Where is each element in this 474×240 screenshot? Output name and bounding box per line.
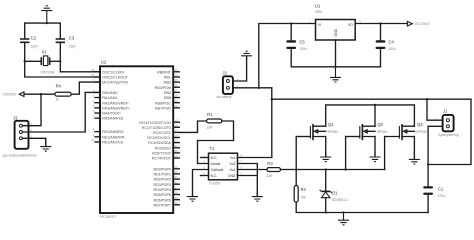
svg-text:J3: J3 <box>13 116 18 121</box>
svg-text:U2: U2 <box>101 59 107 64</box>
U2 pin RE1/AN6/WR (left, pin 9) <box>93 133 125 139</box>
wire Q3 gate lead <box>385 136 400 138</box>
U2 pin RB0/INT (right, pin 33) <box>157 68 179 74</box>
svg-text:Q2: Q2 <box>377 122 383 127</box>
U2 pin RD7/PSP7 (right, pin 30) <box>153 201 179 207</box>
U2 pin RC3/SCK/SCL (right, pin 18) <box>147 134 179 140</box>
svg-text:OSC2/CLKOUT: OSC2/CLKOUT <box>102 76 128 80</box>
svg-text:19: 19 <box>175 165 178 169</box>
ground (Q3 source) <box>409 152 420 164</box>
ground (oscillator top rail) <box>41 6 52 23</box>
resistor R4 <box>55 84 71 102</box>
capacitor C4 100u <box>376 40 386 49</box>
svg-text:X1: X1 <box>42 49 48 54</box>
svg-text:R1: R1 <box>207 112 213 117</box>
svg-text:35: 35 <box>175 78 178 82</box>
U2 pin RA5/AN4/SS (left, pin 7) <box>93 114 124 120</box>
svg-text:470u: 470u <box>438 194 445 198</box>
svg-text:RE0/AN5/RD: RE0/AN5/RD <box>102 130 124 134</box>
power terminal VCC/5V0 (left) <box>3 92 24 97</box>
U2 pin RC0/T1OSO/T1CKI (right, pin 15) <box>139 118 179 124</box>
wire T1 Vcc to +12V <box>238 157 272 159</box>
resistor R1 <box>207 112 222 129</box>
T1 pin stub NC bottom-left <box>201 175 209 177</box>
svg-text:C4: C4 <box>389 40 395 45</box>
wire Q3 gate riser <box>384 137 386 170</box>
node C4 on output rail <box>379 22 381 24</box>
voltage regulator U1 7805 <box>309 3 361 46</box>
svg-text:RC2/CCP1: RC2/CCP1 <box>153 131 171 135</box>
wire R1 to T1 anode <box>198 121 234 164</box>
svg-text:14: 14 <box>91 73 94 77</box>
node J1 pin1 rail junction <box>426 98 428 100</box>
svg-text:29: 29 <box>175 196 178 200</box>
svg-text:RA5/AN4/SS: RA5/AN4/SS <box>102 117 123 121</box>
node bottom rail ground junction <box>342 211 344 213</box>
svg-text:R2: R2 <box>301 187 307 192</box>
wire C5 top lead <box>290 24 292 41</box>
svg-text:Q1: Q1 <box>328 122 334 127</box>
svg-text:21: 21 <box>175 175 178 179</box>
svg-text:10: 10 <box>91 138 94 142</box>
svg-text:C2: C2 <box>31 36 37 41</box>
wire MOSFET drain rail <box>326 105 415 126</box>
svg-text:RB1: RB1 <box>164 76 171 80</box>
svg-text:RB0/INT: RB0/INT <box>157 70 172 74</box>
U2 pin RB7/PGD (right, pin 40) <box>155 104 179 110</box>
svg-text:Anode: Anode <box>211 162 221 166</box>
svg-text:GND: GND <box>334 28 338 36</box>
ground (T1 cathode) <box>187 190 198 201</box>
wire +12V top rail to J1 <box>272 99 471 164</box>
svg-text:15: 15 <box>175 118 178 122</box>
capacitor C1 470u <box>423 186 433 195</box>
ground (J3 pin3) <box>40 138 51 151</box>
svg-text:RC4/SDI/SDA: RC4/SDI/SDA <box>148 141 171 145</box>
svg-text:RB2: RB2 <box>164 81 171 85</box>
wire +12V vertical to T1 Vcc <box>271 88 273 158</box>
svg-text:26: 26 <box>175 154 178 158</box>
svg-text:30: 30 <box>175 201 178 205</box>
svg-text:23: 23 <box>175 139 178 143</box>
svg-text:RB7/PGD: RB7/PGD <box>155 106 171 110</box>
connector J2 car battery <box>216 71 238 100</box>
svg-text:BZV85C12: BZV85C12 <box>332 198 348 202</box>
node R4 left junction <box>40 93 42 95</box>
node Q2 drain junction <box>374 104 376 106</box>
svg-text:RD1/PSP1: RD1/PSP1 <box>153 172 170 176</box>
svg-text:RB4: RB4 <box>164 91 171 95</box>
node +12V branch to regulator <box>258 87 260 89</box>
wire C1 bottom to bottom rail <box>427 195 429 213</box>
svg-text:27: 27 <box>175 186 178 190</box>
U2 pin RD1/PSP1 (right, pin 20) <box>153 170 179 176</box>
node U1 ground lead junction <box>334 66 336 68</box>
wire Q1 source to ground <box>325 137 327 157</box>
svg-text:24: 24 <box>175 144 178 148</box>
svg-text:38: 38 <box>175 94 178 98</box>
svg-text:RD0/PSP0: RD0/PSP0 <box>153 167 170 171</box>
U2 pin RD4/PSP4 (right, pin 27) <box>153 186 179 192</box>
svg-text:17: 17 <box>175 129 178 133</box>
svg-text:J1: J1 <box>443 108 448 113</box>
svg-text:28: 28 <box>175 191 178 195</box>
svg-text:Q3: Q3 <box>417 122 423 127</box>
svg-text:RD4/PSP4: RD4/PSP4 <box>153 188 170 192</box>
U2 pin RC6/TX/CK (right, pin 25) <box>152 149 179 155</box>
svg-text:VO: VO <box>348 23 353 27</box>
wire J3 pin3 to ground <box>22 138 45 146</box>
transistor Q2 IRF540 <box>360 122 388 140</box>
svg-text:J2: J2 <box>222 71 227 76</box>
U2 pin RA3/AN3/VREF+ (left, pin 5) <box>93 104 130 110</box>
svg-text:34: 34 <box>175 73 178 77</box>
svg-text:10k: 10k <box>301 195 307 199</box>
wire +12V riser to 7805 input rail <box>259 24 316 88</box>
node D1 bottom junction <box>325 211 327 213</box>
ground (Q2 source) <box>370 150 381 162</box>
svg-text:40: 40 <box>175 104 178 108</box>
wire D1 bottom to bottom rail <box>325 198 327 213</box>
svg-text:C5: C5 <box>299 40 305 45</box>
svg-text:U1: U1 <box>315 3 321 8</box>
svg-text:RD7/PSP7: RD7/PSP7 <box>153 203 170 207</box>
node J1 return junction <box>427 163 429 165</box>
svg-text:22: 22 <box>175 180 178 184</box>
svg-text:RA1/AN1: RA1/AN1 <box>102 96 117 100</box>
U2 pin RD2/PSP2 (right, pin 21) <box>153 175 179 181</box>
U2 pin RB5 (right, pin 38) <box>164 94 179 100</box>
U2 pin RC7/RX/DT (right, pin 26) <box>152 154 179 160</box>
wire C5 bottom to ground line <box>291 49 380 67</box>
wire C3 bottom to OSC1/CLKIN <box>60 43 100 72</box>
U2 pin RC5/SDO (right, pin 24) <box>155 144 179 150</box>
connector J3 <box>3 116 38 158</box>
crystal X1 <box>41 49 56 74</box>
U2 pin RA4/T0CKI (left, pin 6) <box>93 109 121 115</box>
U2 pin MCLR/Vpp/THV (left, pin 1) <box>93 78 129 84</box>
wire C4 top lead <box>380 24 382 41</box>
wire J1 pin2 lead <box>428 125 443 127</box>
wire C4 bottom to ground line <box>380 49 382 67</box>
svg-text:RA0/AN0: RA0/AN0 <box>102 91 117 95</box>
U2 pin RD6/PSP6 (right, pin 29) <box>153 196 179 202</box>
ground (Q1 source) <box>320 150 331 162</box>
transistor Q1 IRF540 <box>310 122 338 140</box>
svg-text:RB3/PGM: RB3/PGM <box>155 86 171 90</box>
svg-text:1k: 1k <box>56 98 60 102</box>
svg-text:N.C.: N.C. <box>211 174 218 178</box>
microcontroller U2 PIC16F877 <box>100 59 173 219</box>
wire top oscillator rail <box>25 22 61 24</box>
svg-text:RB6/PGC: RB6/PGC <box>155 101 171 105</box>
svg-text:36: 36 <box>175 83 178 87</box>
svg-text:T1: T1 <box>209 146 215 151</box>
svg-text:RA3/AN3/VREF+: RA3/AN3/VREF+ <box>102 106 130 110</box>
U2 pin RA1/AN1 (left, pin 3) <box>93 94 118 100</box>
svg-text:RC6/TX/CK: RC6/TX/CK <box>152 151 171 155</box>
ground (bottom rail) <box>338 213 349 225</box>
U2 pin OSC2/CLKOUT (left, pin 14) <box>91 73 128 79</box>
U2 pin RD5/PSP5 (right, pin 28) <box>153 191 179 197</box>
svg-text:OSC1/CLKIN: OSC1/CLKIN <box>102 70 124 74</box>
U2 pin RC4/SDI/SDA (right, pin 23) <box>148 139 179 145</box>
U2 pin OSC1/CLKIN (left, pin 13) <box>91 68 124 74</box>
svg-text:22R: 22R <box>207 126 214 130</box>
svg-text:20: 20 <box>175 170 178 174</box>
wire T1 Vo1 to R3 <box>238 169 267 171</box>
svg-text:22R: 22R <box>266 174 273 178</box>
svg-text:VI: VI <box>318 23 321 27</box>
ground (J2 pin1) <box>241 51 252 60</box>
capacitor C5 100u <box>286 40 296 49</box>
svg-text:C3: C3 <box>69 36 75 41</box>
svg-text:VCC/5V0: VCC/5V0 <box>3 93 17 97</box>
wire R4 to MCLR pin <box>71 82 100 94</box>
svg-text:IRF540: IRF540 <box>328 130 339 134</box>
U2 pin RB4 (right, pin 37) <box>164 89 179 95</box>
svg-text:33: 33 <box>175 68 178 72</box>
wire U1 ground lead <box>335 40 337 67</box>
svg-text:GND: GND <box>228 174 236 178</box>
optocoupler T1 TLP250 <box>203 146 243 185</box>
svg-text:R4: R4 <box>56 84 62 89</box>
wire D1 top lead <box>325 170 327 192</box>
wire J3 pin1 to R4 node <box>22 94 41 126</box>
svg-text:100u: 100u <box>389 47 396 51</box>
U2 pin RA2/AN2/VREF- (left, pin 4) <box>93 99 130 105</box>
wire Q1 gate riser <box>295 137 297 170</box>
svg-text:39: 39 <box>175 99 178 103</box>
wire J3 pin2 to RA0/AN0 <box>22 92 100 132</box>
wire C2 top lead <box>24 23 26 38</box>
svg-text:RC0/T1OSO/T1CKI: RC0/T1OSO/T1CKI <box>139 121 171 125</box>
wire J1 pin1 to +12V rail <box>427 99 443 120</box>
node gate bus D1 junction <box>325 168 327 170</box>
svg-text:PIC16F877: PIC16F877 <box>100 215 116 219</box>
wire gate drive bus <box>281 169 385 171</box>
svg-text:RC5/SDO: RC5/SDO <box>155 146 171 150</box>
svg-text:Cathode: Cathode <box>211 168 224 172</box>
wire T1 Vo2 and GND to ground <box>238 164 258 197</box>
T1 pin stub NC top-left <box>201 157 209 159</box>
svg-text:car battery: car battery <box>216 95 231 99</box>
node gate bus R2/Q1 junction <box>295 168 297 170</box>
svg-text:VCC/5V0: VCC/5V0 <box>415 22 430 26</box>
node gate bus Q2 junction <box>344 168 346 170</box>
wire T1 cathode to ground <box>193 170 209 197</box>
resistor R2 <box>294 186 306 203</box>
svg-text:D1: D1 <box>332 191 338 196</box>
capacitor C3 <box>56 39 65 42</box>
resistor R3 <box>266 161 280 178</box>
U2 pin RA0/AN0 (left, pin 2) <box>93 89 118 95</box>
svg-text:7805: 7805 <box>315 10 322 14</box>
svg-text:Vo2: Vo2 <box>230 162 236 166</box>
node C5 on input rail <box>290 22 292 24</box>
wire C2 bottom to OSC2/CLKOUT <box>25 43 100 77</box>
wire VCC to R4 <box>24 93 55 95</box>
svg-text:CRYSTAL: CRYSTAL <box>41 70 56 74</box>
U2 pin RC1/T1OSI/CCP2 (right, pin 16) <box>142 123 180 129</box>
svg-text:25: 25 <box>175 149 178 153</box>
svg-text:N.C.: N.C. <box>211 156 218 160</box>
svg-text:37: 37 <box>175 89 178 93</box>
U2 pin RB3/PGM (right, pin 36) <box>155 83 180 89</box>
U2 pin RD0/PSP0 (right, pin 19) <box>153 165 179 171</box>
U2 pin RE2/AN7/CS (left, pin 10) <box>91 138 124 144</box>
svg-text:RC3/SCK/SCL: RC3/SCK/SCL <box>147 136 171 140</box>
svg-text:gas pedal potentiometer: gas pedal potentiometer <box>3 154 38 158</box>
svg-text:16: 16 <box>175 123 178 127</box>
node crystal left junction <box>24 60 26 62</box>
wire J2 pin1 to ground <box>233 56 247 81</box>
wire R2 bottom to bottom rail <box>296 202 428 213</box>
diode D1 zener BZV85C12 <box>320 190 348 202</box>
wire Q2 source to ground <box>374 137 376 157</box>
svg-text:hydrolysis ring: hydrolysis ring <box>438 133 459 137</box>
svg-text:RE2/AN7/CS: RE2/AN7/CS <box>102 141 124 145</box>
wire Q2 gate riser <box>345 137 347 170</box>
svg-text:TLP250: TLP250 <box>209 181 220 185</box>
svg-text:RA4/T0CKI: RA4/T0CKI <box>102 112 120 116</box>
svg-text:RD2/PSP2: RD2/PSP2 <box>153 178 170 182</box>
wire Q2 gate lead <box>346 136 360 138</box>
wire crystal right lead <box>50 60 61 62</box>
wire J1 pin2 to C1 <box>427 126 429 186</box>
svg-text:RB5: RB5 <box>164 96 171 100</box>
U2 pin RB6/PGC (right, pin 39) <box>155 99 179 105</box>
svg-text:RC1/T1OSI/CCP2: RC1/T1OSI/CCP2 <box>142 126 171 130</box>
svg-text:13: 13 <box>91 68 94 72</box>
svg-text:100u: 100u <box>299 47 306 51</box>
svg-text:IRF540: IRF540 <box>417 130 428 134</box>
wire Q1 gate lead <box>296 136 310 138</box>
svg-text:MCLR/Vpp/THV: MCLR/Vpp/THV <box>102 81 128 85</box>
connector J1 hydrolysis ring <box>436 108 459 137</box>
U2 pin RB1 (right, pin 34) <box>164 73 179 79</box>
ground (U1 GND) <box>330 67 341 82</box>
U2 pin RB2 (right, pin 35) <box>164 78 179 84</box>
svg-text:RD6/PSP6: RD6/PSP6 <box>153 198 170 202</box>
svg-text:IRF540: IRF540 <box>377 130 388 134</box>
svg-text:22pF: 22pF <box>31 45 38 49</box>
transistor Q3 IRF540 <box>399 122 427 140</box>
power terminal VCC/5V0 (regulator output) <box>407 21 429 26</box>
wire Q3 source to ground <box>413 137 415 159</box>
ground (T1 Vo2/GND) <box>252 190 263 201</box>
node +12V rail junction <box>271 98 273 100</box>
svg-text:RA2/AN2/VREF-: RA2/AN2/VREF- <box>102 101 130 105</box>
svg-text:18: 18 <box>175 134 178 138</box>
svg-text:RD5/PSP5: RD5/PSP5 <box>153 193 170 197</box>
wire R2 top lead <box>295 170 297 186</box>
wire RC2/CCP1 to R1 <box>179 121 206 132</box>
U2 pin RC2/CCP1 (right, pin 17) <box>153 129 179 135</box>
svg-text:Vcc: Vcc <box>230 156 236 160</box>
U2 pin RD3/PSP3 (right, pin 22) <box>153 180 179 186</box>
U2 pin RE0/AN5/RD (left, pin 8) <box>93 128 124 134</box>
svg-text:R3: R3 <box>267 161 273 166</box>
wire crystal left lead <box>25 60 42 62</box>
svg-text:RC7/RX/DT: RC7/RX/DT <box>152 157 172 161</box>
svg-text:C1: C1 <box>438 186 444 191</box>
svg-text:RE1/AN6/WR: RE1/AN6/WR <box>102 135 124 139</box>
svg-text:Vo1: Vo1 <box>230 168 236 172</box>
capacitor C2 <box>20 39 29 42</box>
wire J2 pin2 +12V to regulator input and H-bridge <box>233 87 272 89</box>
node oscillator rail junction <box>46 22 48 24</box>
wire U1 output rail <box>355 23 407 25</box>
node crystal right junction <box>59 60 61 62</box>
svg-text:RD3/PSP3: RD3/PSP3 <box>153 183 170 187</box>
wire C3 top lead <box>59 23 61 38</box>
svg-text:22pF: 22pF <box>69 45 76 49</box>
